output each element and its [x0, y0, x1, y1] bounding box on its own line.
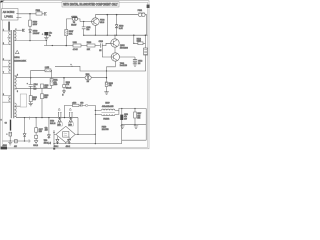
- transistor Q514: [111, 53, 119, 61]
- bottom wire W6: [16, 117, 78, 119]
- svg-text:110mH: 110mH: [66, 88, 72, 90]
- title box: [62, 2, 119, 7]
- junction node at x30: [29, 13, 31, 15]
- Q501 emitter wire: [94, 25, 96, 35]
- svg-text:2n: 2n: [49, 35, 51, 37]
- bus junction x52: [52, 45, 53, 46]
- border frame outer: [1, 1, 149, 149]
- svg-text:R517: R517: [137, 113, 141, 115]
- svg-text:P501: P501: [138, 10, 142, 12]
- svg-text:L541: L541: [73, 42, 77, 44]
- svg-text:5%1.8: 5%1.8: [33, 145, 38, 147]
- svg-text:+: +: [27, 83, 29, 85]
- svg-text:4.7k: 4.7k: [66, 84, 69, 86]
- bridge right corner wire: [75, 133, 95, 135]
- T501 winding low-left: [9, 96, 11, 103]
- transistor Q515: [111, 39, 119, 47]
- choke L510 core: [101, 111, 115, 113]
- svg-text:2sc2120: 2sc2120: [120, 65, 127, 67]
- thermal fuse CR501 wire: [66, 19, 80, 22]
- resistor R517: [134, 109, 136, 125]
- wire W4: [84, 34, 148, 36]
- svg-text:2N2-7W8: 2N2-7W8: [102, 129, 109, 131]
- long wire L2: [17, 77, 107, 79]
- W6 junctions: [24, 117, 25, 118]
- column under L2 at x64: [63, 78, 65, 91]
- svg-text:41100010BK: 41100010BK: [14, 60, 27, 62]
- T501 mid-right taps: [15, 76, 17, 89]
- svg-text:R10: R10: [39, 131, 42, 133]
- resistor R518: [41, 94, 44, 99]
- bus junction x66.3: [66, 45, 68, 47]
- bridge cap group G1 label: [58, 108, 60, 110]
- diamond bottom stub: [65, 143, 67, 144]
- Q501 collector wire: [94, 15, 96, 18]
- svg-text:7: 7: [3, 72, 4, 74]
- svg-text:R103: R103: [87, 42, 91, 44]
- lamp K511: [85, 76, 89, 80]
- electrolytic cap C509: [44, 32, 48, 35]
- svg-text:N: N: [62, 95, 64, 97]
- svg-text:5: 5: [17, 91, 18, 93]
- svg-text:2W: 2W: [87, 81, 90, 83]
- T501 bottom-right taps: [15, 106, 21, 117]
- choke L510 bottom winding: [101, 114, 114, 115]
- svg-text:10K: 10K: [87, 49, 91, 51]
- IC pin ticks: [16, 13, 18, 17]
- sub loop right resistor R516: [134, 35, 146, 48]
- svg-text:RGL34: RGL34: [50, 123, 55, 125]
- Q514 collector right wire: [120, 57, 136, 64]
- svg-text:C510: C510: [124, 114, 128, 116]
- cap C511: [82, 27, 86, 29]
- cap C512: [133, 59, 137, 61]
- series cap C513 on bus: [100, 43, 111, 48]
- ground below R512: [29, 104, 33, 106]
- column x42 upper box C516: [41, 84, 44, 88]
- bottom right top wire junctions: [121, 108, 122, 109]
- Q515 emitter wire: [114, 47, 116, 53]
- T501 top-right taps: [15, 30, 47, 40]
- T501 low-left taps: [3, 96, 11, 103]
- Q514 emitter path: [107, 61, 116, 71]
- svg-text:47k: 47k: [109, 85, 112, 87]
- svg-text:+: +: [6, 134, 7, 136]
- svg-text:50mW: 50mW: [71, 25, 76, 27]
- plug connector E2: [22, 29, 24, 32]
- choke bottom winding wires: [95, 110, 119, 114]
- svg-text:2W0: 2W0: [54, 84, 58, 86]
- bridge cap group G2: [69, 112, 73, 117]
- svg-text:22n: 22n: [86, 29, 89, 31]
- zener diode A510: [115, 25, 118, 28]
- bottom right section top wire: [95, 109, 146, 111]
- plug connector E1: [45, 12, 47, 16]
- resistor R512: [29, 96, 32, 102]
- svg-text:B40: B40: [44, 97, 47, 99]
- T501 winding mid-left: [9, 60, 11, 73]
- DB2 box label: [68, 123, 73, 126]
- shield box near transformer: [20, 94, 26, 107]
- junction W0 x30: [29, 40, 30, 41]
- resistor R507: [65, 30, 68, 36]
- column x36.1: [35, 118, 37, 141]
- wire cap to bottom wire: [9, 136, 11, 141]
- T501 winding bottom-right: [15, 103, 17, 117]
- svg-text:4.7uH: 4.7uH: [73, 49, 78, 51]
- svg-text:AN 3C502: AN 3C502: [3, 11, 15, 14]
- box component x64: [63, 85, 66, 88]
- T501 mid-left taps: [3, 60, 11, 73]
- svg-text:F1150: F1150: [102, 127, 107, 129]
- border tick near x29.7: [29, 117, 31, 120]
- thick core stub below transformer: [10, 120, 11, 131]
- top loop wire of bottom section: [65, 105, 96, 143]
- wire ground to bus: [45, 40, 47, 45]
- ground below R515: [104, 92, 109, 94]
- wire diode to bus: [29, 33, 31, 41]
- BW tick x28: [28, 140, 30, 142]
- ground G1: [44, 38, 49, 40]
- svg-text:1K0: 1K0: [137, 115, 140, 117]
- choke L510 top winding: [101, 109, 114, 110]
- thermal fuse CR501: [72, 17, 75, 20]
- W4 junctions: [83, 35, 84, 36]
- svg-text:4M0.2: 4M0.2: [54, 146, 59, 148]
- svg-text:1.5/5: 1.5/5: [45, 67, 49, 69]
- svg-text:5: 5: [3, 59, 4, 61]
- svg-text:2SC5200: 2SC5200: [120, 48, 128, 50]
- ground under C510: [120, 126, 124, 128]
- svg-text:1: 1: [16, 29, 17, 31]
- ground below BW: [8, 143, 12, 145]
- warning triangle M501: [15, 50, 19, 53]
- svg-text:25V: 25V: [124, 118, 128, 120]
- svg-text:9: 9: [3, 94, 4, 96]
- D515 wires: [24, 118, 26, 141]
- cap C511 stems: [83, 22, 85, 36]
- right vertical from W4 to L1: [144, 55, 146, 71]
- T501 primary winding top-left: [9, 31, 11, 45]
- svg-text:1/2W: 1/2W: [33, 24, 38, 26]
- glyph on wire: [86, 105, 88, 107]
- wire tap to plug E2: [15, 29, 22, 31]
- svg-text:M501: M501: [14, 57, 20, 59]
- fuse F501: [36, 12, 42, 15]
- svg-text:47u: 47u: [124, 116, 127, 118]
- svg-text:C513: C513: [99, 41, 103, 43]
- Q515 collector wire: [114, 35, 116, 39]
- resistor R103 on bus: [87, 44, 95, 47]
- svg-text:50V: 50V: [34, 88, 38, 90]
- svg-text:3: 3: [17, 74, 18, 76]
- resistor R506: [73, 104, 80, 106]
- svg-text:4M02: 4M02: [3, 145, 7, 147]
- svg-text:4M5x4M5x4M5: 4M5x4M5x4M5: [102, 106, 114, 108]
- ink blob bottom border: [53, 148, 55, 150]
- transistor Q501: [92, 18, 100, 26]
- resistor R510 column wire: [29, 14, 31, 30]
- column x48.9: [48, 118, 50, 139]
- L1 tick: [71, 66, 72, 67]
- polarized cap symbol below bar: [9, 132, 12, 136]
- resistor R511: [50, 79, 53, 86]
- svg-text:1N0: 1N0: [58, 124, 61, 126]
- T501 winding mid-right: [15, 76, 17, 89]
- right section frame wires: [122, 109, 147, 141]
- box C517: [35, 128, 38, 133]
- ground under R517: [134, 126, 138, 128]
- mid loop left vertical: [30, 70, 32, 88]
- ground arrow x64: [63, 91, 66, 93]
- BW junction x10.2: [10, 140, 11, 141]
- wire bottom to x121.7: [54, 125, 122, 144]
- transformer T501 core: [11, 30, 13, 118]
- column under cap C514 x29: [30, 87, 32, 104]
- zener column wire: [116, 15, 118, 36]
- wire pin1 to fuse: [18, 13, 44, 15]
- svg-text:1/2W: 1/2W: [137, 41, 141, 43]
- bridge left corner wire: [54, 130, 56, 148]
- bridge center box: [63, 132, 69, 138]
- bridge top diode DB1: [58, 119, 61, 122]
- mid loop bottom wire: [17, 86, 52, 89]
- border frame inner: [2, 2, 147, 147]
- svg-text:LPW51: LPW51: [4, 15, 13, 19]
- svg-text:2N: 2N: [138, 63, 141, 65]
- resistor R519: [45, 69, 51, 72]
- svg-text:1N: 1N: [99, 50, 102, 52]
- Q514 base wire: [102, 48, 111, 57]
- svg-text:4M0.2(-.4): 4M0.2(-.4): [44, 143, 52, 145]
- cap C514: [29, 85, 33, 87]
- svg-text:3: 3: [3, 43, 4, 45]
- svg-text:F1150R: F1150R: [103, 118, 110, 120]
- electrolytic cap C510: [121, 109, 123, 125]
- svg-text:1N0: 1N0: [44, 87, 47, 89]
- svg-text:B05: B05: [137, 118, 140, 120]
- ground arrow x36: [34, 141, 37, 144]
- junction x107.3: [107, 14, 109, 16]
- svg-text:s: s: [71, 64, 72, 66]
- ground below C512: [133, 64, 137, 66]
- resistor R515: [105, 82, 108, 87]
- bottom right lower wire: [122, 124, 146, 126]
- svg-text:WITH DIGITAL IN ASSORTED COMPO: WITH DIGITAL IN ASSORTED COMPONENT ONLY: [63, 3, 118, 7]
- bridge top diode DB2: [69, 119, 72, 122]
- thick core stub above transformer: [8, 22, 9, 31]
- svg-text:+: +: [42, 34, 43, 36]
- svg-text:7/5%: 7/5%: [44, 140, 48, 142]
- corner mark top-right: [147, 5, 150, 8]
- svg-text:B1K: B1K: [69, 34, 73, 36]
- bridge bottom diode DB4: [68, 139, 71, 142]
- base wire to Q501: [80, 21, 92, 23]
- resistor R516: [138, 42, 143, 45]
- connector J2 at right border: [144, 48, 148, 55]
- BW junction x24.5: [24, 140, 25, 141]
- svg-text:A510: A510: [119, 24, 123, 27]
- diode D510: [29, 30, 32, 33]
- bridge bottom diode DB3: [56, 139, 59, 142]
- svg-text:4M0.2: 4M0.2: [66, 146, 71, 148]
- DB1 box label: [57, 123, 62, 126]
- corner mark top-left: [0, 1, 4, 3]
- svg-text:M51?: M51?: [105, 102, 109, 104]
- vertical x107.3: [106, 15, 108, 36]
- svg-text:M5.8: M5.8: [100, 22, 104, 24]
- T501 top-left taps: [3, 31, 11, 45]
- wire P501 to right border: [145, 15, 147, 36]
- svg-text:1: 1: [3, 30, 4, 32]
- L2 junction x64: [63, 77, 65, 79]
- bridge cap group G1: [58, 112, 62, 117]
- svg-text:1N4007: 1N4007: [33, 33, 40, 35]
- mid loop wire top: [31, 70, 52, 78]
- bridge cap group G2 label: [69, 108, 71, 110]
- L1 junction x106.5: [106, 70, 107, 71]
- long wire L1: [55, 66, 146, 71]
- column x42 wires: [41, 88, 43, 117]
- vertical W6 to bridge right: [77, 118, 79, 135]
- diode D517: [48, 135, 51, 138]
- bottom-left wire BW: [3, 140, 31, 142]
- svg-text:C6: C6: [5, 122, 7, 124]
- column x106.5 resistor R515: [106, 71, 108, 92]
- T501 winding top-right: [15, 31, 17, 40]
- box2 x36: [35, 135, 38, 138]
- svg-text:4M0: 4M0: [45, 130, 48, 132]
- junction x116.6: [116, 14, 118, 16]
- wire cap to ground: [45, 35, 47, 37]
- pin2 stub: [18, 16, 21, 18]
- svg-text:C5x: C5x: [45, 127, 48, 129]
- connector P501: [139, 13, 142, 16]
- fuse box on BW: [15, 140, 18, 143]
- corner mark bottom-left: [1, 147, 8, 150]
- IC U501 box: [2, 9, 18, 20]
- left loop vertical x66.3: [65, 19, 67, 46]
- svg-text:4.8V: 4.8V: [119, 28, 124, 30]
- bridge diamond: [56, 126, 75, 142]
- svg-text:1N0: 1N0: [69, 124, 72, 126]
- svg-text:R10: R10: [33, 99, 36, 101]
- junction cap column: [83, 21, 84, 22]
- svg-text:F501: F501: [36, 10, 41, 12]
- resistor R510: [29, 20, 32, 26]
- diode D515: [23, 134, 26, 137]
- inductor L541 on bus: [73, 44, 81, 47]
- main bus W5: [44, 45, 100, 47]
- top wire W3: [95, 14, 137, 16]
- cap C506: [81, 104, 82, 107]
